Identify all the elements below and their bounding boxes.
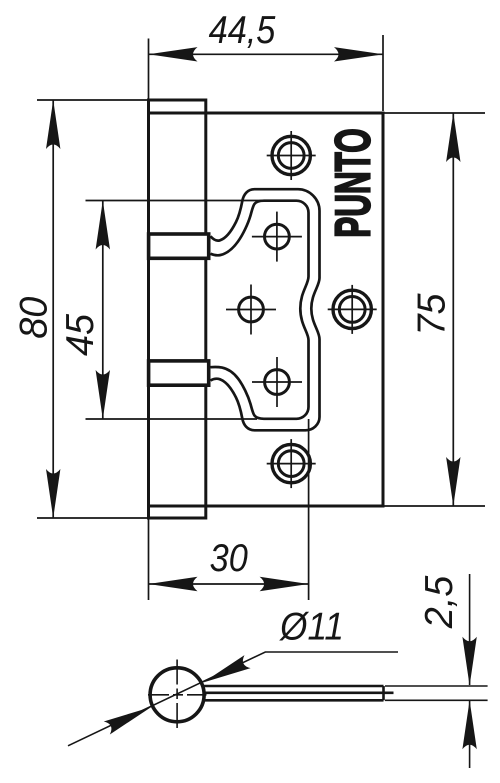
dimension 75 extension lines — [384, 112, 485, 114]
dimension 30 extension lines — [148, 518, 150, 600]
dimension 2,5 extension lines — [385, 685, 488, 687]
extension line 45-top (crosses barrel) — [86, 200, 263, 202]
svg-text:2,5: 2,5 — [417, 575, 461, 629]
lower knuckle sleeve — [149, 361, 209, 385]
arrow 30 left — [149, 577, 198, 591]
side view: barrel circle — [150, 668, 204, 722]
arrow 80 bottom — [46, 469, 60, 518]
plate hole right (double circle) — [333, 290, 371, 328]
arrow 45 bottom — [96, 370, 110, 419]
side view: second leaf line — [204, 691, 394, 694]
dimension 2,5 arrow tails — [469, 574, 471, 685]
svg-text:44,5: 44,5 — [209, 8, 276, 52]
extension line 45-bottom (crosses barrel) — [86, 418, 258, 420]
side view: circle centerlines — [148, 694, 207, 696]
plate hole bottom (double circle) — [272, 444, 310, 482]
boss screw hole middle — [239, 297, 264, 322]
svg-text:75: 75 — [410, 293, 454, 336]
dimension 75 line — [452, 113, 454, 506]
arrow 2,5 bottom — [462, 700, 476, 749]
svg-text:30: 30 — [210, 536, 249, 580]
arrow 75 bottom — [446, 457, 460, 506]
side view: leaf bottom edge — [204, 699, 384, 702]
svg-text:45: 45 — [58, 313, 102, 356]
plate hole right crosshair — [328, 308, 377, 310]
svg-text:PUNTO: PUNTO — [326, 128, 381, 237]
upper knuckle sleeve — [149, 234, 209, 258]
dimension 80 line — [52, 100, 54, 518]
arrow 44,5 right — [334, 47, 383, 61]
side view: leaf top edge — [203, 685, 384, 688]
dimension 30 line — [149, 583, 309, 585]
svg-text:80: 80 — [12, 296, 56, 339]
stamped boss outer outline — [211, 189, 320, 430]
dimension 80 extension lines — [37, 99, 148, 101]
plate hole top (double circle) — [272, 136, 310, 174]
arrow 30 right — [260, 577, 309, 591]
dimension Ø11 leader line — [68, 652, 398, 746]
arrow Ø11 upper — [200, 655, 250, 689]
boss screw hole top — [265, 224, 290, 249]
arrow 45 top — [96, 201, 110, 250]
svg-text:Ø11: Ø11 — [278, 604, 344, 648]
arrow 80 top — [46, 100, 60, 149]
arrow 75 top — [446, 113, 460, 162]
dimension 45 line — [102, 201, 104, 420]
boss screw hole bottom — [265, 370, 290, 395]
side view: leaf end cap — [382, 686, 385, 700]
plate hole top crosshair — [267, 155, 316, 157]
dimension 44,5 line — [149, 53, 384, 55]
plate hole bottom crosshair — [267, 463, 316, 465]
hinge barrel (pin housing, left vertical body) — [149, 100, 206, 518]
dimension 44,5 extension lines — [148, 39, 150, 100]
arrow 2,5 top — [462, 637, 476, 686]
arrow 44,5 left — [149, 47, 198, 61]
hinge plate (main leaf rectangle) — [149, 113, 384, 506]
arrow Ø11 lower — [104, 701, 154, 735]
stamped boss inner outline — [211, 201, 309, 419]
